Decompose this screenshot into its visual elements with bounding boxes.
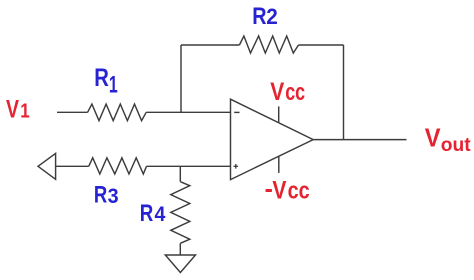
op-amp U1 — [231, 99, 314, 179]
svg-text:1: 1 — [109, 71, 118, 98]
svg-text:cc: cc — [285, 80, 305, 106]
label Vcc — [270, 77, 305, 105]
svg-text:out: out — [441, 135, 471, 156]
svg-text:V: V — [6, 95, 19, 123]
wire arrow to R3 — [56, 165, 89, 167]
svg-text:V: V — [272, 176, 287, 204]
svg-text:1: 1 — [20, 99, 29, 122]
input arrow terminal — [38, 153, 56, 179]
wire feedback left vertical — [180, 45, 182, 112]
wire R2 to feedback right vertical — [299, 44, 344, 46]
svg-text:cc: cc — [288, 177, 310, 204]
label V1 — [6, 95, 30, 123]
label R4 — [140, 200, 166, 227]
label -Vcc — [265, 176, 310, 204]
wire junction to R4 — [179, 166, 181, 181]
svg-text:R: R — [94, 64, 109, 91]
Vcc pin — [278, 106, 280, 122]
svg-text:R: R — [140, 200, 154, 227]
ground — [165, 255, 195, 273]
label R1 — [94, 64, 117, 98]
wire R4 to ground — [179, 243, 181, 255]
resistor R4 — [171, 182, 190, 244]
svg-text:V: V — [425, 124, 441, 153]
plus sign non-inverting input — [234, 164, 239, 169]
svg-text:R: R — [94, 180, 108, 208]
label Vout — [425, 124, 472, 156]
svg-text:R: R — [252, 2, 266, 29]
resistor R2 — [239, 36, 298, 53]
svg-text:2: 2 — [266, 4, 278, 29]
minus sign inverting input — [234, 111, 239, 113]
-Vcc pin — [278, 156, 280, 173]
svg-text:4: 4 — [155, 202, 166, 226]
resistor R1 — [88, 104, 147, 121]
svg-text:3: 3 — [108, 184, 119, 208]
wire feedback right vertical — [343, 45, 345, 140]
resistor R3 — [89, 158, 147, 174]
svg-text:V: V — [270, 77, 285, 105]
output wire — [313, 139, 406, 141]
label R3 — [94, 180, 119, 208]
wire R3 to op-amp non-inverting input — [147, 165, 231, 167]
label R2 — [252, 2, 278, 29]
wire feedback top left — [181, 44, 239, 46]
wire R1 to op-amp inverting input — [146, 111, 230, 113]
wire V1 input to R1 — [57, 111, 88, 113]
